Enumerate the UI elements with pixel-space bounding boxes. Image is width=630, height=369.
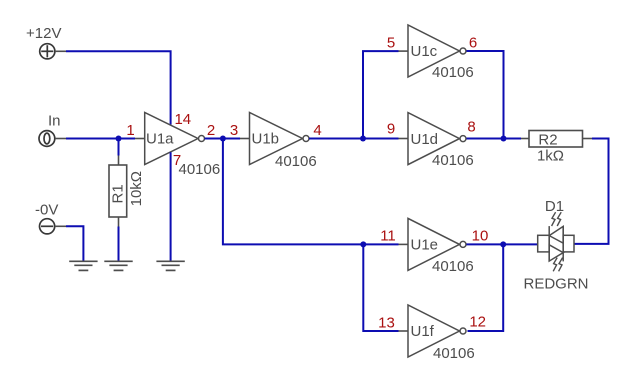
wire U1a output down to lower branch bbox=[223, 139, 363, 245]
pin stub U1c pin5 bbox=[399, 50, 409, 52]
svg-text:R2: R2 bbox=[538, 132, 557, 149]
svg-text:9: 9 bbox=[387, 120, 395, 137]
wire R1 to ground bbox=[118, 227, 120, 261]
svg-text:10kΩ: 10kΩ bbox=[128, 171, 145, 206]
wire U1a output to U1b input bbox=[205, 138, 241, 140]
pin stub U1f pin13 bbox=[399, 330, 409, 332]
wire lower branch to U1e input bbox=[363, 243, 398, 245]
svg-text:U1d: U1d bbox=[411, 131, 439, 148]
inverter U1d bbox=[408, 113, 466, 165]
ground under U1a bbox=[156, 261, 184, 270]
wire U1d output to R2 bbox=[467, 138, 522, 140]
inverter U1c bbox=[408, 25, 466, 77]
svg-text:12: 12 bbox=[469, 314, 486, 331]
pin stub U1e pin11 bbox=[399, 243, 409, 245]
junction node In/R1 bbox=[116, 136, 122, 142]
svg-text:40106: 40106 bbox=[275, 153, 317, 170]
D1 light arrows bottom bbox=[553, 258, 562, 272]
ground under R1 bbox=[104, 261, 132, 270]
wire -0V to ground bbox=[66, 226, 83, 260]
D1 light arrows top bbox=[552, 212, 562, 226]
svg-text:40106: 40106 bbox=[432, 152, 474, 169]
inverter U1a bbox=[145, 113, 205, 165]
svg-text:1kΩ: 1kΩ bbox=[537, 148, 564, 165]
LED D1 bicolor bbox=[538, 226, 574, 261]
svg-text:3: 3 bbox=[230, 122, 238, 139]
pin stub R2 left bbox=[521, 138, 529, 140]
inverter U1f bbox=[408, 305, 466, 357]
svg-text:D1: D1 bbox=[545, 198, 564, 215]
resistor R2 bbox=[529, 131, 583, 148]
pin stub U1d pin9 bbox=[399, 138, 409, 140]
wire U1e output to D1 left terminal bbox=[467, 243, 538, 245]
junction node U1a output bbox=[220, 136, 226, 142]
wire junction down to R1 bbox=[118, 139, 120, 156]
svg-text:5: 5 bbox=[387, 35, 395, 52]
junction node lower branch bbox=[360, 241, 366, 247]
svg-text:-0V: -0V bbox=[35, 201, 58, 218]
junction node U1b output bbox=[360, 136, 366, 142]
pin stub U1b pin3 bbox=[240, 138, 250, 140]
svg-text:U1e: U1e bbox=[411, 237, 439, 254]
wire U1a pin7 to ground bbox=[170, 152, 172, 260]
pin stub R1 bottom bbox=[118, 217, 120, 227]
svg-text:10: 10 bbox=[472, 228, 489, 245]
svg-text:U1a: U1a bbox=[146, 131, 174, 148]
power terminal -0V bbox=[40, 219, 67, 234]
wire R2 to D1 right terminal bbox=[574, 139, 608, 244]
svg-text:U1c: U1c bbox=[411, 43, 438, 60]
inverter U1e bbox=[408, 218, 466, 270]
svg-text:14: 14 bbox=[174, 111, 191, 128]
svg-text:40106: 40106 bbox=[432, 258, 474, 275]
svg-text:2: 2 bbox=[207, 122, 215, 139]
power terminal +12V bbox=[40, 44, 66, 59]
junction node U1c/U1d outputs bbox=[501, 136, 507, 142]
svg-text:13: 13 bbox=[378, 314, 395, 331]
svg-text:1: 1 bbox=[126, 122, 134, 139]
svg-text:6: 6 bbox=[469, 35, 477, 52]
svg-text:40106: 40106 bbox=[433, 345, 475, 362]
pin stub U1a pin1 bbox=[135, 138, 145, 140]
svg-text:40106: 40106 bbox=[179, 161, 221, 178]
junction node U1e/U1f outputs bbox=[500, 241, 506, 247]
wire +12V rail to U1a pin14 bbox=[66, 51, 171, 124]
svg-text:7: 7 bbox=[173, 152, 181, 169]
ground under -0V bbox=[69, 261, 97, 270]
wire lower branch down to U1f input bbox=[363, 244, 398, 331]
wire U1f output up to junction bbox=[468, 244, 504, 331]
svg-text:U1f: U1f bbox=[411, 323, 435, 340]
pin stub R1 top bbox=[118, 156, 120, 166]
wire U1c output down to U1d output node bbox=[467, 51, 504, 139]
input terminal In bbox=[39, 131, 66, 147]
inverter U1b bbox=[250, 113, 310, 165]
wire U1b output up to U1c input bbox=[363, 51, 399, 138]
svg-text:+12V: +12V bbox=[26, 25, 61, 42]
svg-text:In: In bbox=[48, 113, 61, 130]
resistor R1 bbox=[109, 165, 127, 217]
pin stub R2 right bbox=[583, 138, 593, 140]
svg-text:40106: 40106 bbox=[432, 64, 474, 81]
svg-text:U1b: U1b bbox=[252, 131, 280, 148]
svg-text:8: 8 bbox=[467, 119, 475, 136]
wire U1b output to U1d input bbox=[309, 138, 399, 140]
wire In to U1a input bbox=[66, 138, 135, 140]
svg-text:R1: R1 bbox=[110, 184, 127, 203]
svg-text:4: 4 bbox=[313, 122, 321, 139]
svg-text:REDGRN: REDGRN bbox=[523, 275, 588, 292]
svg-text:11: 11 bbox=[380, 228, 396, 245]
